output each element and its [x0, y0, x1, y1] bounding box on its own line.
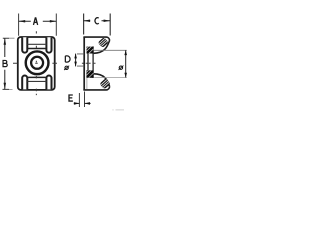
A dimension line	[19, 20, 57, 22]
bottom pad (hatched section)	[100, 78, 111, 89]
C arrow right	[104, 20, 111, 23]
A extension lines	[19, 14, 57, 36]
E dimension line left with arrow	[74, 102, 80, 104]
D extension lines	[77, 54, 84, 66]
lower wall hatch block	[86, 70, 93, 78]
A label	[33, 18, 37, 25]
wall slot left line	[87, 53, 89, 70]
B extension lines	[3, 38, 10, 89]
hole outer circle	[26, 51, 49, 74]
top pad (hatched section)	[98, 37, 109, 48]
centerline vertical dashes	[35, 31, 37, 95]
top edge with corner	[83, 37, 109, 40]
E extension lines	[79, 92, 84, 108]
slot bottom-left	[22, 76, 27, 90]
wall slot right line	[92, 46, 94, 78]
faint hidden line below lower block	[86, 78, 88, 89]
C dimension line	[84, 20, 111, 22]
bottom edge with corner	[83, 86, 109, 90]
B label	[3, 60, 7, 67]
D dimension line with arrows	[75, 54, 77, 67]
C label	[95, 18, 99, 24]
A arrow right	[50, 20, 57, 23]
bottom scoop curve	[94, 74, 110, 87]
slot bottom-right	[46, 76, 51, 90]
side view centerline dashes	[82, 62, 96, 64]
B dimension line	[4, 38, 6, 89]
centerline horizontal dashes	[13, 62, 57, 64]
A arrow left	[19, 20, 26, 23]
dia extension lines	[94, 49, 127, 51]
top scoop curve	[94, 41, 110, 54]
slot top-left	[22, 37, 27, 52]
faint watermark mark bottom-right	[112, 109, 113, 110]
D diameter symbol	[64, 66, 69, 70]
upper wall hatch block	[87, 47, 94, 54]
B arrow bottom	[4, 83, 7, 90]
B arrow top	[4, 38, 7, 45]
E dimension line right with arrow	[85, 102, 91, 104]
deck lines bottom	[27, 76, 46, 78]
dia dimension line with arrows	[125, 50, 127, 77]
E label	[69, 95, 73, 101]
dia diameter symbol	[119, 66, 124, 70]
body outline	[18, 37, 55, 90]
C arrow left	[84, 20, 91, 23]
hole inner circle	[31, 57, 43, 69]
left edge	[83, 37, 85, 90]
deck lines top	[27, 43, 46, 45]
D label	[65, 56, 70, 62]
slot top-right	[46, 37, 51, 52]
C extension lines	[84, 14, 111, 36]
